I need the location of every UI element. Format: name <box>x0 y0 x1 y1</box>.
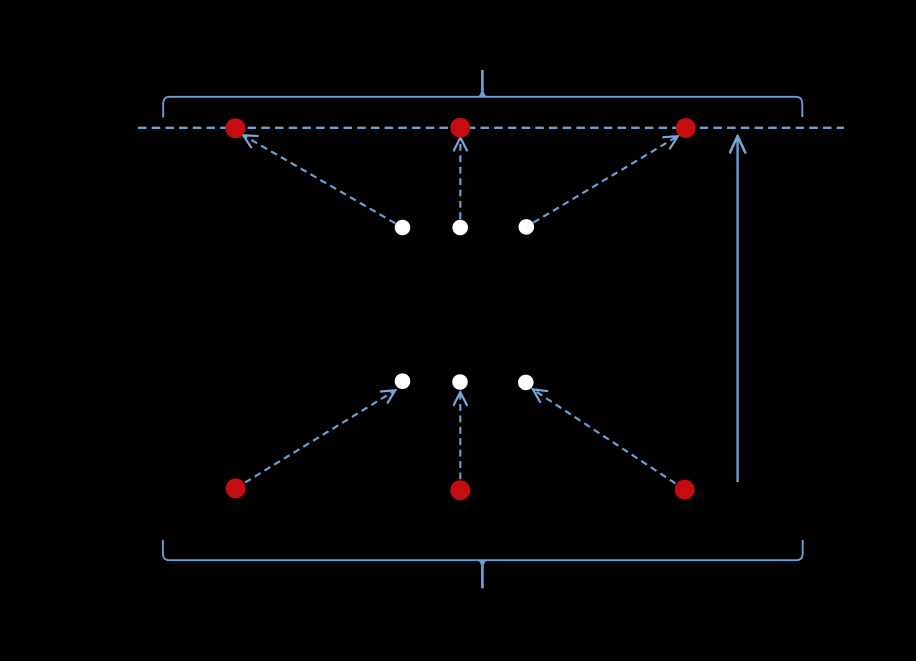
wire: dashed arrow upper-middle <box>459 138 461 220</box>
node red dot top-right <box>676 118 696 138</box>
node red dot bottom-middle <box>450 480 470 500</box>
bottom brace center nub <box>481 560 484 588</box>
wire: dashed arrow lower-middle <box>459 392 461 479</box>
node white dot upper-right <box>519 219 535 235</box>
node white dot lower-middle <box>452 374 468 390</box>
wire: dashed arrow upper-left <box>243 135 395 223</box>
node red dot bottom-left <box>226 478 246 498</box>
node white dot lower-right <box>518 375 534 391</box>
node red dot bottom-right <box>675 480 695 500</box>
node white dot upper-middle <box>452 220 468 236</box>
wire: dashed arrow lower-right <box>533 389 676 483</box>
node red dot top-left <box>225 118 245 138</box>
top brace <box>163 97 802 118</box>
wire: dashed horizontal reference line <box>138 127 844 129</box>
wire: big solid vertical arrow <box>736 136 738 482</box>
node red dot top-middle <box>450 118 470 138</box>
node white dot upper-left <box>395 220 411 236</box>
bottom brace <box>163 540 803 560</box>
node white dot lower-left <box>395 373 411 389</box>
wire: dashed arrow upper-right <box>533 136 677 222</box>
wire: dashed arrow lower-left <box>245 390 395 482</box>
top brace center nub <box>481 70 484 97</box>
